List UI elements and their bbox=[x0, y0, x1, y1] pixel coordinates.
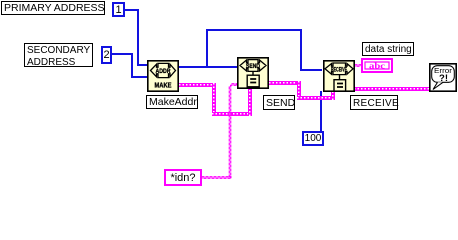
label SECONDARY ADDRESS bbox=[24, 43, 93, 67]
svg-text:MAKE: MAKE bbox=[155, 81, 172, 90]
label RECEIVE bbox=[350, 95, 398, 110]
wire 2-h2 bbox=[131, 76, 148, 78]
constant 1 bbox=[112, 2, 125, 17]
wire addr down to RECEIVE bbox=[300, 29, 302, 71]
label SEND bbox=[263, 95, 295, 110]
wire 2-h1 bbox=[112, 53, 132, 55]
constant 100 bbox=[302, 131, 324, 146]
wire string RECEIVE to Error bbox=[354, 87, 429, 91]
wire addr top rail bbox=[206, 29, 302, 31]
svg-text:?!: ?! bbox=[439, 73, 448, 84]
label MakeAddr bbox=[146, 95, 198, 109]
label PRIMARY ADDRESS bbox=[1, 1, 105, 15]
wire 100 to RECEIVE bbox=[320, 91, 322, 131]
wire string to RECEIVE bbox=[297, 96, 336, 100]
wire string under SEND bbox=[212, 112, 252, 116]
VI icon Error handler U4 bbox=[429, 63, 457, 92]
wire addr MakeAddr to SEND bbox=[179, 66, 237, 68]
string constant *idn? bbox=[164, 169, 202, 186]
label data string bbox=[362, 42, 414, 56]
wire string up into SEND bbox=[248, 88, 252, 116]
subVI icon MakeAddr U1 bbox=[147, 60, 179, 92]
svg-text:RECEIVE: RECEIVE bbox=[331, 67, 347, 73]
wire *idn? horizontal bbox=[200, 177, 231, 179]
string indicator abc (data string) bbox=[361, 58, 393, 73]
wire addr branch up bbox=[206, 29, 208, 68]
wire 1-h1 bbox=[125, 9, 139, 11]
wire 2-v bbox=[131, 53, 133, 78]
subVI icon RECEIVE U3 bbox=[323, 60, 355, 92]
wire string MakeAddr out bbox=[179, 83, 217, 87]
svg-text:SEND: SEND bbox=[246, 62, 260, 69]
wire string up into RECEIVE bbox=[331, 91, 335, 100]
wire string SEND down bbox=[297, 81, 301, 100]
wire 1-h2 bbox=[137, 64, 147, 66]
constant 2 bbox=[101, 46, 112, 64]
wire string SEND out bbox=[269, 81, 301, 85]
wire addr into RECEIVE bbox=[300, 69, 322, 71]
svg-text:ADDR: ADDR bbox=[156, 68, 171, 75]
wire RECEIVE to abc bbox=[353, 65, 361, 67]
wire 1-v bbox=[137, 9, 139, 66]
wire *idn? vertical bbox=[229, 85, 231, 177]
subVI icon SEND U2 bbox=[237, 57, 269, 89]
wire *idn? into SEND bbox=[230, 84, 237, 86]
wire string down bbox=[212, 83, 216, 116]
